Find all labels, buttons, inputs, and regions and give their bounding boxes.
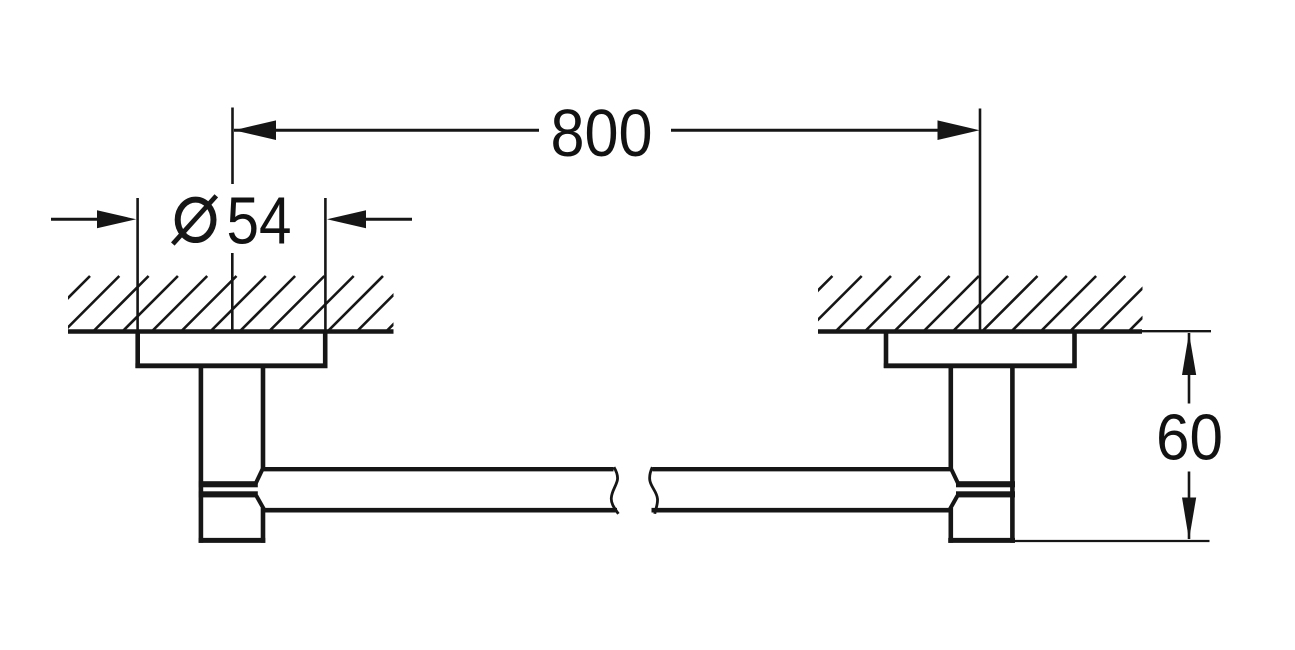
left collar upper band: [199, 481, 258, 487]
60-dim line upper segment: [1188, 333, 1191, 404]
54-dim right extension line: [324, 198, 327, 331]
bar left segment bottom edge: [261, 508, 617, 513]
800-dim right extension line / right mount centerline: [979, 109, 982, 332]
60-dim bottom reference line: [1015, 540, 1210, 542]
60-dim line lower segment: [1188, 472, 1191, 540]
right wall hatch: [745, 276, 1184, 334]
wall line extension to 60-dim: [1142, 330, 1211, 332]
54-dim right leader line: [366, 218, 412, 221]
bar right break line: [650, 467, 658, 514]
left collar lower band: [199, 491, 258, 497]
54-dim left extension line: [136, 198, 139, 331]
800-dim line right segment: [671, 129, 938, 132]
left post bottom chamfer: [256, 496, 264, 510]
right collar lower band: [956, 491, 1015, 497]
800-dim left arrowhead: [234, 120, 276, 140]
left wall hatch: [32, 276, 442, 334]
left post right edge lower: [261, 508, 266, 543]
left post left edge: [199, 365, 204, 543]
right post top chamfer: [951, 468, 959, 484]
60-dim down arrowhead: [1182, 498, 1196, 540]
right flange left edge: [884, 330, 889, 368]
54-dim left arrowhead: [97, 210, 136, 228]
left flange right edge: [323, 330, 328, 368]
bar right segment bottom edge: [652, 508, 953, 513]
left post top chamfer: [256, 468, 264, 484]
left post right edge upper: [261, 365, 266, 469]
right post right edge: [1010, 365, 1015, 543]
60-dim up arrowhead: [1182, 333, 1196, 375]
left mount centerline: [231, 253, 234, 331]
dimension text Ø 54: [178, 200, 214, 240]
right flange right edge: [1072, 330, 1077, 368]
54-dim left leader line: [51, 218, 97, 221]
left wall surface line: [68, 329, 394, 333]
800-dim right arrowhead: [938, 120, 980, 140]
right wall surface line: [818, 329, 1142, 333]
54-dim right arrowhead: [327, 210, 366, 228]
right post left edge upper: [948, 365, 953, 469]
bar left segment top edge: [261, 467, 614, 471]
right post bottom edge: [948, 538, 1015, 543]
svg-text:800: 800: [551, 96, 653, 171]
svg-text:54: 54: [227, 183, 292, 258]
right flange bottom edge: [884, 363, 1077, 368]
left post bottom edge: [199, 538, 266, 543]
bar left break line: [611, 467, 618, 514]
left flange left edge: [135, 330, 140, 368]
right post bottom chamfer: [950, 496, 958, 510]
svg-text:60: 60: [1156, 401, 1223, 474]
bar right segment top edge: [653, 467, 953, 471]
800-dim line left segment: [234, 129, 539, 132]
right collar upper band: [956, 481, 1015, 487]
left flange bottom edge: [135, 363, 327, 368]
right post left edge lower: [948, 508, 953, 543]
800-dim left extension line: [231, 108, 234, 185]
